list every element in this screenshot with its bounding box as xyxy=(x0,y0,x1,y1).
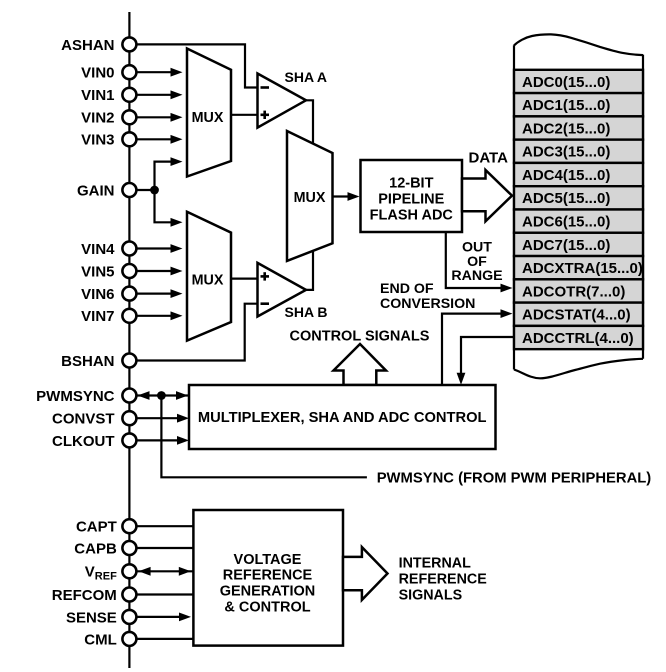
svg-text:VIN6: VIN6 xyxy=(81,286,114,303)
pin minus SHA B xyxy=(261,302,270,305)
pin VREF xyxy=(122,564,136,578)
register ADC0 xyxy=(514,70,643,93)
pin plus SHA B xyxy=(261,275,270,278)
svg-text:12-BIT: 12-BIT xyxy=(389,175,433,191)
svg-text:ADC0(15...0): ADC0(15...0) xyxy=(522,74,610,91)
wire VIN7 to MUX B xyxy=(137,315,174,317)
register bank top wavy edge xyxy=(514,34,643,55)
pin GAIN xyxy=(122,183,136,197)
svg-text:GAIN: GAIN xyxy=(77,182,115,199)
svg-text:CONVERSION: CONVERSION xyxy=(380,296,475,312)
wire SENSE to vref box xyxy=(137,616,186,618)
node PWMSYNC junction dot xyxy=(157,391,166,400)
svg-text:FLASH ADC: FLASH ADC xyxy=(370,208,454,224)
wire CAPB to vref box xyxy=(137,547,194,549)
wire ADCCTRL to control box xyxy=(461,337,514,374)
wire VIN4 to MUX B xyxy=(137,247,174,249)
pin CAPT xyxy=(122,519,136,533)
label INTERNAL REFERENCE SIGNALS xyxy=(399,556,487,604)
register ADC3 xyxy=(514,140,643,163)
svg-text:RANGE: RANGE xyxy=(451,268,502,284)
wire VIN1 to MUX A xyxy=(137,94,174,96)
wire VIN3 to MUX A xyxy=(137,138,174,140)
svg-text:ADC5(15...0): ADC5(15...0) xyxy=(522,190,610,207)
wire REFCOM to vref box xyxy=(137,593,194,595)
svg-text:ADC2(15...0): ADC2(15...0) xyxy=(522,120,610,137)
wire VIN5 to MUX B xyxy=(137,270,174,272)
svg-text:VIN3: VIN3 xyxy=(81,132,114,149)
pin VIN2 xyxy=(122,110,136,124)
svg-text:PIPELINE: PIPELINE xyxy=(378,192,444,208)
pin VIN7 xyxy=(122,309,136,323)
svg-text:GENERATION: GENERATION xyxy=(220,584,316,600)
svg-text:ADC3(15...0): ADC3(15...0) xyxy=(522,144,610,161)
svg-text:MULTIPLEXER, SHA AND ADC CONTR: MULTIPLEXER, SHA AND ADC CONTROL xyxy=(198,410,487,426)
wire MUX A to SHA A plus input xyxy=(231,114,258,116)
wire out-of-range ADC to ADCOTR xyxy=(446,232,503,288)
svg-text:ADCOTR(7...0): ADCOTR(7...0) xyxy=(522,283,625,300)
svg-text:CONVST: CONVST xyxy=(52,411,115,428)
register ADCSTAT xyxy=(514,303,643,326)
wire end-of-conversion control box to ADCSTAT xyxy=(442,314,503,385)
svg-text:SENSE: SENSE xyxy=(66,609,117,626)
svg-text:CAPB: CAPB xyxy=(74,540,117,557)
svg-text:ASHAN: ASHAN xyxy=(61,37,114,54)
svg-text:REFCOM: REFCOM xyxy=(52,587,117,604)
wire VIN2 to MUX A xyxy=(137,116,174,118)
wire CAPT to vref box xyxy=(137,525,194,527)
wire PWMSYNC bidirectional to control box xyxy=(137,394,190,396)
svg-text:ADC6(15...0): ADC6(15...0) xyxy=(522,214,610,231)
svg-text:& CONTROL: & CONTROL xyxy=(224,599,310,615)
register ADC2 xyxy=(514,116,643,139)
register ADC5 xyxy=(514,186,643,209)
block arrow internal reference signals xyxy=(343,547,388,600)
wire GAIN lower branch to MUX B xyxy=(155,190,174,222)
svg-text:ADC7(15...0): ADC7(15...0) xyxy=(522,237,610,254)
wire BSHAN to SHA B minus input xyxy=(137,304,259,361)
wire GAIN stub xyxy=(137,189,155,191)
label END OF CONVERSION xyxy=(380,281,475,312)
pin plus SHA A xyxy=(261,114,270,117)
register bank left edge xyxy=(513,45,515,369)
svg-text:ADCXTRA(15...0): ADCXTRA(15...0) xyxy=(522,260,643,277)
svg-text:ADCSTAT(4...0): ADCSTAT(4...0) xyxy=(522,307,631,324)
pin CONVST xyxy=(122,411,136,425)
svg-text:INTERNAL: INTERNAL xyxy=(399,556,472,572)
svg-text:VIN5: VIN5 xyxy=(81,263,114,280)
register ADC7 xyxy=(514,233,643,256)
pin minus SHA A xyxy=(261,86,270,89)
svg-text:VOLTAGE: VOLTAGE xyxy=(234,552,302,568)
svg-text:CAPT: CAPT xyxy=(76,519,117,536)
svg-text:CLKOUT: CLKOUT xyxy=(52,433,115,450)
svg-text:MUX: MUX xyxy=(192,110,224,126)
svg-text:VIN0: VIN0 xyxy=(81,65,114,82)
wire SHA A output to central MUX xyxy=(305,100,313,144)
svg-text:PWMSYNC: PWMSYNC xyxy=(36,388,115,405)
wire SHA B output to central MUX xyxy=(305,250,313,290)
svg-text:DATA: DATA xyxy=(469,150,509,167)
block U6 voltage reference generation and control xyxy=(193,510,343,646)
pin BSHAN xyxy=(122,354,136,368)
svg-text:PWMSYNC (FROM PWM PERIPHERAL): PWMSYNC (FROM PWM PERIPHERAL) xyxy=(377,471,652,487)
pin VIN1 xyxy=(122,88,136,102)
svg-text:ADCCTRL(4...0): ADCCTRL(4...0) xyxy=(522,330,634,347)
wire CONVST to control box xyxy=(137,417,181,419)
pin VIN6 xyxy=(122,287,136,301)
pin PWMSYNC xyxy=(122,389,136,403)
label OUT OF RANGE xyxy=(451,240,502,285)
svg-text:CML: CML xyxy=(84,631,117,648)
block arrow DATA bus to registers xyxy=(462,170,512,221)
svg-text:VIN1: VIN1 xyxy=(81,87,114,104)
svg-text:SIGNALS: SIGNALS xyxy=(399,588,463,604)
svg-text:REFERENCE: REFERENCE xyxy=(399,572,487,588)
register ADCOTR xyxy=(514,279,643,302)
svg-text:BSHAN: BSHAN xyxy=(61,353,114,370)
wire MUX B to SHA B plus input xyxy=(231,278,258,280)
pin REFCOM xyxy=(122,588,136,602)
register ADCXTRA xyxy=(514,256,643,279)
svg-text:VIN4: VIN4 xyxy=(81,241,115,258)
svg-text:VREF: VREF xyxy=(85,564,117,583)
svg-text:SHA B: SHA B xyxy=(285,304,328,320)
register bank right edge xyxy=(642,55,644,359)
svg-text:MUX: MUX xyxy=(192,273,224,289)
block arrow control signals up arrow xyxy=(334,344,387,385)
svg-text:ADC1(15...0): ADC1(15...0) xyxy=(522,97,610,114)
op-amp SHA B triangle xyxy=(258,263,307,317)
pin CAPB xyxy=(122,541,136,555)
wire CLKOUT to control box xyxy=(137,439,181,441)
register ADC4 xyxy=(514,163,643,186)
op-amp SHA A triangle xyxy=(258,74,307,128)
svg-text:REFERENCE: REFERENCE xyxy=(223,568,313,584)
mux U3 central MUX trapezoid xyxy=(287,131,333,261)
pin VIN4 xyxy=(122,242,136,256)
block U4 12-bit pipeline flash ADC xyxy=(361,160,463,232)
register ADC1 xyxy=(514,93,643,116)
pin CLKOUT xyxy=(122,433,136,447)
pin ASHAN xyxy=(122,37,136,51)
svg-text:VIN2: VIN2 xyxy=(81,110,114,127)
svg-text:ADC4(15...0): ADC4(15...0) xyxy=(522,167,610,184)
mux U2 MUX B trapezoid xyxy=(187,212,231,341)
svg-text:SHA A: SHA A xyxy=(285,69,328,85)
svg-text:END OF: END OF xyxy=(380,281,434,297)
wire ASHAN to SHA A minus input xyxy=(137,44,259,87)
wire left bus vertical line xyxy=(128,12,130,668)
wire central MUX to ADC xyxy=(333,195,353,197)
svg-text:VIN7: VIN7 xyxy=(81,308,114,325)
pin SENSE xyxy=(122,610,136,624)
pin VIN3 xyxy=(122,132,136,146)
wire VIN0 to MUX A xyxy=(137,71,174,73)
wire GAIN upper branch to MUX A xyxy=(155,162,174,190)
register ADC6 xyxy=(514,209,643,232)
register bank bottom wavy edge xyxy=(514,359,643,379)
pin VIN5 xyxy=(122,264,136,278)
wire VIN6 to MUX B xyxy=(137,293,174,295)
block U5 multiplexer sha and adc control xyxy=(189,385,496,449)
svg-text:MUX: MUX xyxy=(294,190,326,206)
wire PWMSYNC from PWM peripheral xyxy=(161,396,367,478)
node GAIN junction dot xyxy=(150,186,159,195)
wire VREF bidirectional to vref box xyxy=(137,570,194,572)
wire CML to vref box xyxy=(137,638,194,640)
pin VIN0 xyxy=(122,65,136,79)
mux U1 MUX A trapezoid xyxy=(187,49,231,177)
svg-text:CONTROL SIGNALS: CONTROL SIGNALS xyxy=(290,328,430,344)
register ADCCTRL xyxy=(514,326,643,349)
pin CML xyxy=(122,632,136,646)
